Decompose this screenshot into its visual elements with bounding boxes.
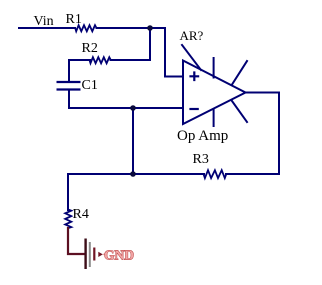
junction J3	[130, 171, 136, 177]
resistor R2	[90, 57, 111, 63]
svg-text:R2: R2	[82, 41, 98, 56]
pin 4 V- vertical	[213, 109, 215, 126]
svg-text:R3: R3	[193, 152, 209, 167]
wire C1 bottom lead	[68, 90, 70, 109]
ground bar 3	[93, 248, 95, 261]
wire R2 left to C1 top	[69, 60, 90, 82]
wire R4 to ground (dark red)	[68, 228, 85, 254]
pin 5 offset null diagonal lower-right	[232, 101, 247, 123]
plus input marker	[191, 73, 199, 81]
wire down to R4	[67, 174, 69, 210]
ground arrow	[98, 252, 103, 257]
wire corner down to plus input	[165, 28, 183, 77]
wire R1 to corner	[97, 27, 166, 29]
wire J2 down to J3	[132, 108, 134, 174]
pin 7 V+ vertical	[213, 58, 215, 78]
ground bar 1	[84, 239, 86, 270]
op-amp AR?	[182, 45, 247, 126]
wire feedback vertical	[278, 93, 280, 175]
junction J1	[147, 25, 153, 31]
resistor R3	[204, 170, 227, 178]
svg-text:AR?: AR?	[180, 28, 204, 43]
junction J2	[130, 105, 136, 111]
wire R3 left run	[68, 173, 204, 175]
minus input marker	[191, 108, 198, 110]
pin 1 offset null diagonal upper-left	[182, 45, 201, 70]
svg-text:Op Amp: Op Amp	[177, 128, 228, 144]
svg-text:R4: R4	[73, 207, 89, 222]
ground bar 2	[89, 242, 91, 267]
svg-text:C1: C1	[82, 78, 98, 93]
resistor R4 (vertical)	[65, 210, 71, 229]
svg-text:GND: GND	[104, 248, 134, 263]
svg-text:Vin: Vin	[34, 14, 54, 29]
wire junction J1 down to R2	[111, 28, 151, 60]
ground power port GND	[86, 239, 106, 270]
capacitor C1	[57, 82, 81, 90]
wire Vin input	[19, 27, 75, 29]
resistor R1	[75, 25, 96, 31]
pin 8 NC diagonal upper-right	[232, 61, 247, 85]
wire bottom horizontal to minus input	[69, 107, 183, 109]
wire op-amp output	[246, 92, 280, 94]
svg-text:R1: R1	[66, 12, 82, 27]
wire R3 right	[226, 173, 279, 175]
